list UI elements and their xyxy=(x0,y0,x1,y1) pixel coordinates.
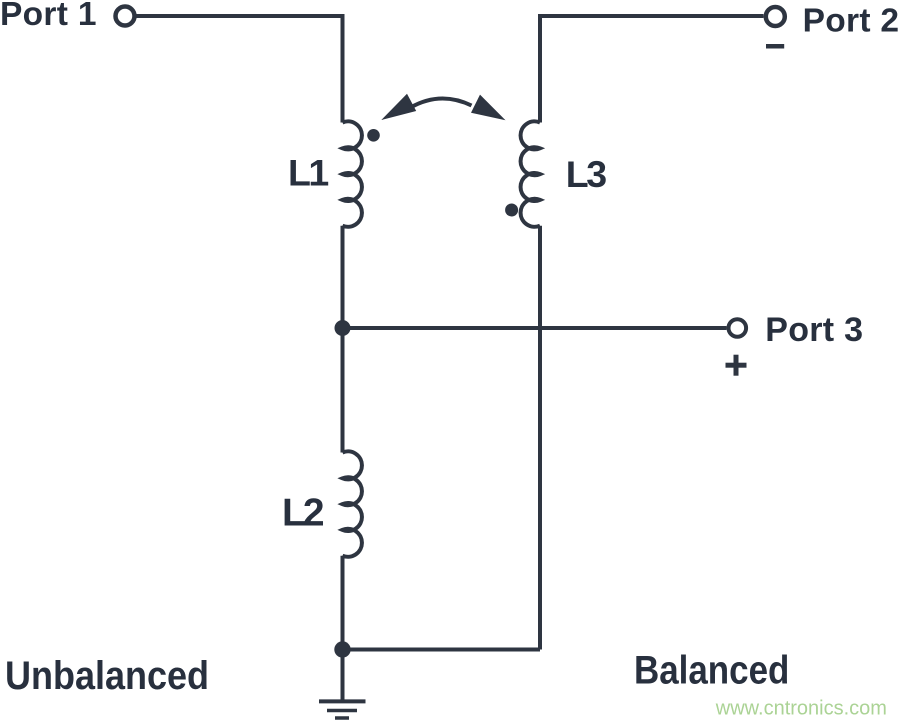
coupling arrow arc xyxy=(411,98,472,107)
terminal circle Port 1 xyxy=(116,7,135,26)
terminal circle Port 3 xyxy=(729,319,747,337)
wire L1 bottom to node A through L2 top xyxy=(341,226,345,453)
phasing dot L3 xyxy=(505,204,518,217)
wire node A to Port 3 xyxy=(343,326,727,330)
terminal circle Port 2 xyxy=(766,7,785,26)
coupling arrowhead left xyxy=(381,94,416,120)
ground xyxy=(319,650,366,719)
svg-text:Unbalanced: Unbalanced xyxy=(5,654,209,698)
svg-text:Balanced: Balanced xyxy=(634,647,789,692)
wire Port1 to L1 top xyxy=(137,16,343,123)
svg-text:Port 3: Port 3 xyxy=(765,311,863,349)
junction ground node dot xyxy=(334,641,350,657)
plus sign at Port 3 xyxy=(726,363,747,368)
inductor L3 xyxy=(521,121,540,226)
wire Port2 to L3 top xyxy=(540,16,764,123)
svg-text:L3: L3 xyxy=(566,153,606,195)
svg-text:Port 1: Port 1 xyxy=(0,0,97,33)
minus sign at Port 2 xyxy=(766,44,784,49)
phasing dot L1 xyxy=(367,129,380,142)
wire L2 bottom to ground node xyxy=(341,556,345,650)
svg-text:www.cntronics.com: www.cntronics.com xyxy=(715,698,887,720)
coupling arrowhead right xyxy=(471,95,506,121)
inductor L1 xyxy=(343,121,362,226)
wire L3 bottom to bottom-right corner xyxy=(538,226,542,650)
wire ground node to right column xyxy=(343,648,541,652)
svg-text:Port 2: Port 2 xyxy=(803,3,900,40)
svg-text:L1: L1 xyxy=(288,152,328,194)
svg-text:L2: L2 xyxy=(282,492,324,535)
junction node A dot xyxy=(335,320,351,336)
inductor L2 xyxy=(343,451,362,556)
